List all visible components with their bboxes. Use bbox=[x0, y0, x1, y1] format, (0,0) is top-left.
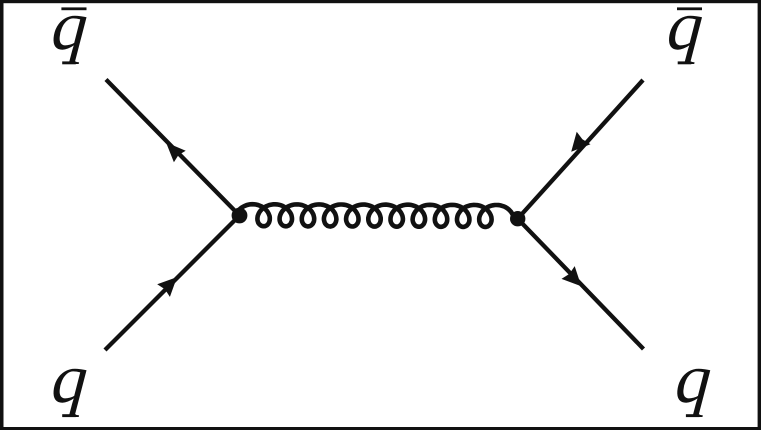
left vertex dot bbox=[232, 208, 248, 224]
antiquark line (top-left) bbox=[106, 80, 240, 216]
gluon propagator bbox=[236, 204, 513, 227]
arrow on bottom-right quark line bbox=[562, 266, 582, 286]
right vertex dot bbox=[510, 211, 525, 226]
label qbar top-right bbox=[665, 0, 706, 65]
overline of top-right qbar bbox=[677, 7, 702, 10]
label q bottom-left bbox=[49, 340, 90, 418]
quark line (bottom-right) bbox=[518, 219, 644, 349]
antiquark line (top-right) bbox=[518, 80, 643, 219]
serif foot of bottom-left q bbox=[62, 414, 76, 417]
serif foot of bottom-right q bbox=[686, 414, 700, 417]
label q bottom-right bbox=[673, 340, 714, 418]
overline of top-left qbar bbox=[61, 7, 86, 10]
arrow on top-right antiquark line bbox=[571, 132, 590, 152]
svg-text:q: q bbox=[49, 340, 90, 418]
arrow on top-left antiquark line bbox=[166, 142, 186, 162]
serif foot of top-right qbar bbox=[678, 61, 692, 64]
serif foot of top-left qbar bbox=[62, 61, 76, 64]
arrow on bottom-left quark line bbox=[157, 277, 177, 297]
svg-text:q: q bbox=[673, 340, 714, 418]
quark line (bottom-left) bbox=[105, 216, 240, 351]
